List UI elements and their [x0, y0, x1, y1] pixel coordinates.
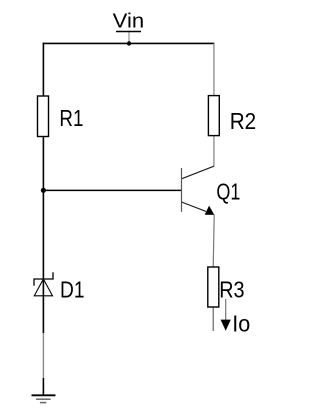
svg-text:Io: Io [232, 310, 250, 336]
svg-text:D1: D1 [60, 277, 85, 303]
svg-text:R2: R2 [230, 108, 257, 134]
svg-text:R1: R1 [59, 105, 83, 131]
svg-text:Vin: Vin [113, 11, 145, 33]
svg-text:Q1: Q1 [216, 179, 240, 205]
svg-text:R3: R3 [219, 277, 244, 303]
